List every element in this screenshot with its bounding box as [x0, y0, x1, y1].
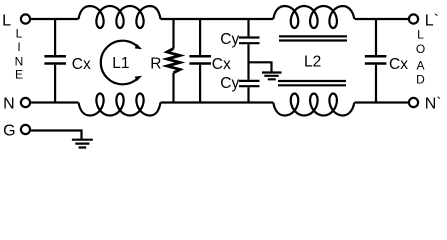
- svg-text:L1: L1: [112, 55, 129, 72]
- svg-text:A: A: [416, 59, 424, 73]
- svg-text:Cx: Cx: [389, 56, 408, 73]
- svg-text:N: N: [3, 96, 15, 113]
- svg-text:L`: L`: [425, 13, 439, 30]
- svg-text:R: R: [150, 55, 161, 72]
- svg-text:I: I: [17, 40, 20, 54]
- svg-text:L: L: [16, 27, 23, 41]
- svg-text:L: L: [417, 27, 424, 41]
- svg-text:Cy: Cy: [220, 31, 239, 48]
- svg-text:O: O: [416, 42, 425, 56]
- svg-text:L2: L2: [304, 54, 321, 71]
- svg-text:Cy: Cy: [220, 75, 239, 92]
- svg-text:G: G: [3, 123, 15, 140]
- svg-text:D: D: [416, 72, 425, 86]
- svg-text:Cx: Cx: [72, 56, 91, 73]
- svg-text:E: E: [15, 68, 23, 82]
- svg-text:L: L: [2, 13, 11, 30]
- svg-text:N: N: [15, 54, 24, 68]
- svg-text:Cx: Cx: [212, 56, 231, 73]
- svg-text:N`: N`: [425, 96, 442, 113]
